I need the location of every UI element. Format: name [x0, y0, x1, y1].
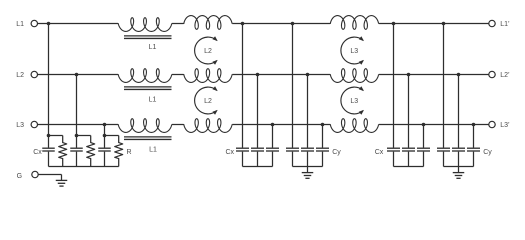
svg-text:L3’: L3’	[500, 122, 510, 129]
svg-text:Cx: Cx	[33, 149, 42, 156]
svg-text:L3: L3	[16, 122, 24, 129]
svg-text:Cx: Cx	[225, 149, 234, 156]
svg-text:L1: L1	[149, 44, 157, 51]
svg-text:L3: L3	[350, 48, 358, 55]
svg-text:Cy: Cy	[332, 149, 341, 156]
svg-text:L2: L2	[204, 48, 212, 55]
svg-text:L1’: L1’	[500, 21, 510, 28]
svg-text:G: G	[17, 173, 22, 180]
svg-text:L1: L1	[149, 96, 157, 103]
svg-text:L1: L1	[16, 21, 24, 28]
svg-text:L2’: L2’	[500, 72, 510, 79]
svg-text:Cx: Cx	[375, 149, 384, 156]
svg-text:L2: L2	[204, 98, 212, 105]
svg-text:L3: L3	[350, 98, 358, 105]
svg-text:L1: L1	[149, 146, 157, 153]
svg-text:R: R	[127, 149, 132, 156]
svg-text:Cy: Cy	[483, 149, 492, 156]
svg-text:L2: L2	[16, 72, 24, 79]
